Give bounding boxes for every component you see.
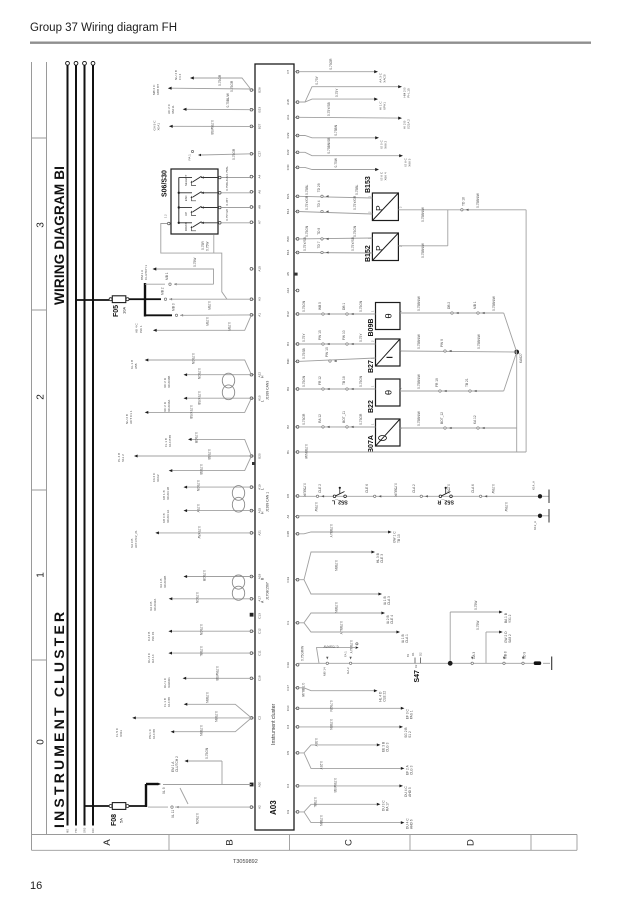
svg-text:B22: B22 — [368, 400, 375, 413]
svg-text:PH_15: PH_15 — [407, 88, 411, 98]
svg-text:2: 2 — [399, 245, 403, 247]
svg-text:XD 9: XD 9 — [523, 652, 527, 659]
svg-text:0.75Y/SB: 0.75Y/SB — [351, 237, 355, 251]
svg-text:MB 2: MB 2 — [161, 287, 165, 295]
svg-text:F4 4: F4 4 — [178, 74, 182, 80]
svg-text:2: 2 — [368, 211, 372, 213]
svg-text:DB 1: DB 1 — [342, 303, 346, 310]
svg-text:0.75BN/W: 0.75BN/W — [476, 192, 480, 208]
svg-text:TB 10: TB 10 — [397, 534, 401, 543]
svg-text:0.75W: 0.75W — [193, 257, 197, 267]
svg-text:S21A 2: S21A 2 — [407, 119, 411, 129]
svg-text:2: 2 — [36, 394, 47, 400]
svg-text:1 2: 1 2 — [164, 214, 168, 218]
svg-text:16: 16 — [30, 880, 42, 892]
svg-text:X311: X311 — [119, 730, 123, 737]
svg-text:0.75GN: 0.75GN — [191, 353, 195, 365]
svg-text:θ: θ — [384, 390, 395, 395]
svg-text:A4: A4 — [258, 174, 262, 178]
svg-text:B4: B4 — [286, 342, 290, 346]
svg-text:F08: F08 — [111, 814, 118, 826]
svg-text:A8: A8 — [258, 205, 262, 209]
svg-text:GA 3: GA 3 — [472, 652, 476, 659]
svg-text:CLE 3: CLE 3 — [380, 554, 384, 563]
svg-text:RA 17: RA 17 — [386, 802, 390, 811]
svg-text:0.75BL/GN: 0.75BL/GN — [225, 176, 229, 191]
svg-text:CLE 2: CLE 2 — [318, 484, 322, 493]
svg-text:XCAN3B: XCAN3B — [167, 376, 171, 388]
svg-text:R10: R10 — [91, 828, 95, 833]
svg-text:ACT C1 1: ACT C1 1 — [129, 410, 133, 424]
svg-text:D1: D1 — [411, 652, 415, 656]
svg-text:0.75R: 0.75R — [227, 322, 231, 331]
svg-text:C3: C3 — [286, 725, 290, 729]
svg-text:5A: 5A — [119, 818, 124, 823]
svg-text:K14 88: K14 88 — [152, 729, 156, 739]
svg-text:S11 2: S11 2 — [121, 454, 125, 462]
svg-text:PW 1: PW 1 — [139, 325, 143, 333]
svg-text:B2: B2 — [286, 425, 290, 429]
svg-text:INSTRUMENT CLUSTER: INSTRUMENT CLUSTER — [51, 609, 67, 828]
svg-text:B9: B9 — [286, 387, 290, 391]
svg-text:C29: C29 — [286, 132, 290, 138]
svg-text:XCAN 1A: XCAN 1A — [166, 509, 170, 523]
svg-text:WB 5: WB 5 — [318, 302, 322, 310]
svg-text:DOWN: DOWN — [184, 222, 188, 231]
svg-text:CLG 3: CLG 3 — [410, 765, 414, 775]
svg-text:S52_L: S52_L — [331, 499, 348, 505]
svg-text:A12: A12 — [286, 287, 290, 293]
svg-text:B23: B23 — [258, 107, 262, 113]
svg-text:PW 15: PW 15 — [318, 330, 322, 340]
svg-text:1: 1 — [368, 237, 372, 239]
svg-text:0.35Y: 0.35Y — [314, 738, 318, 747]
svg-text:A: A — [102, 839, 113, 846]
svg-text:0.75W: 0.75W — [334, 157, 338, 167]
svg-text:0.75BN/W: 0.75BN/W — [421, 242, 425, 258]
svg-text:RA 14: RA 14 — [151, 654, 155, 663]
svg-text:C10: C10 — [286, 705, 290, 711]
svg-text:XM 11: XM 11 — [171, 105, 175, 114]
svg-text:B09B: B09B — [368, 319, 375, 337]
svg-text:C4: C4 — [286, 784, 290, 788]
svg-text:0.75BN/W: 0.75BN/W — [417, 410, 421, 426]
svg-text:TD 4: TD 4 — [317, 200, 321, 207]
svg-text:BOT_12: BOT_12 — [440, 412, 444, 424]
svg-text:F05: F05 — [113, 305, 120, 317]
svg-text:PW 9: PW 9 — [440, 339, 444, 347]
svg-text:0.75Y: 0.75Y — [315, 75, 319, 84]
svg-text:AHD 5: AHD 5 — [408, 787, 412, 797]
svg-text:0.75SB: 0.75SB — [207, 449, 211, 460]
svg-text:XL 11: XL 11 — [171, 810, 175, 818]
svg-text:B90: B90 — [286, 358, 290, 364]
svg-text:0.75Y: 0.75Y — [335, 88, 339, 97]
svg-text:0.75BN/W: 0.75BN/W — [417, 333, 421, 349]
svg-text:A21: A21 — [258, 530, 262, 536]
svg-text:I: I — [386, 356, 395, 358]
svg-text:C17: C17 — [286, 685, 290, 691]
svg-text:0.75GR/W: 0.75GR/W — [301, 645, 305, 661]
svg-text:K14 BT8: K14 BT8 — [168, 435, 172, 447]
svg-text:B07A: B07A — [368, 435, 375, 453]
svg-text:0.75W/SB: 0.75W/SB — [210, 120, 214, 135]
svg-text:C9: C9 — [286, 810, 290, 814]
svg-text:3: 3 — [36, 222, 47, 228]
svg-text:B20: B20 — [286, 236, 290, 242]
svg-text:SA8 2: SA8 2 — [508, 634, 512, 643]
svg-text:0.75Y: 0.75Y — [359, 333, 363, 342]
svg-text:TB 21: TB 21 — [465, 378, 469, 387]
svg-text:XAWD1: XAWD1 — [167, 677, 171, 688]
svg-text:CLA 3: CLA 3 — [387, 596, 391, 605]
svg-text:0.75GN: 0.75GN — [195, 813, 199, 825]
svg-text:B12: B12 — [286, 311, 290, 317]
svg-text:0.75Y/GR: 0.75Y/GR — [305, 195, 309, 210]
svg-text:C18: C18 — [258, 675, 262, 681]
svg-text:0.75BL: 0.75BL — [313, 797, 317, 807]
svg-text:MB 3: MB 3 — [172, 303, 176, 311]
svg-text:0.75GN: 0.75GN — [329, 700, 333, 712]
svg-text:0.75BN/W: 0.75BN/W — [417, 295, 421, 311]
svg-text:FR 19: FR 19 — [435, 378, 439, 387]
svg-text:0.75Y: 0.75Y — [302, 333, 306, 342]
svg-text:A5: A5 — [286, 272, 290, 276]
svg-text:A1: A1 — [258, 313, 262, 317]
svg-text:SELECT: SELECT — [184, 175, 188, 186]
svg-text:X66 2: X66 2 — [384, 140, 388, 148]
svg-text:WIRING DIAGRAM BI: WIRING DIAGRAM BI — [52, 166, 67, 305]
svg-text:C16: C16 — [286, 662, 290, 668]
svg-text:K14_A: K14_A — [532, 481, 536, 490]
svg-text:0.75BL/Y: 0.75BL/Y — [329, 524, 333, 538]
svg-text:C12: C12 — [258, 628, 262, 634]
svg-text:0.75GN: 0.75GN — [196, 480, 200, 492]
svg-text:0.75BN: 0.75BN — [334, 560, 338, 571]
svg-text:0.75BN: 0.75BN — [199, 725, 203, 736]
svg-text:AHD 6: AHD 6 — [410, 819, 414, 829]
svg-text:C1: C1 — [286, 621, 290, 625]
svg-text:0.75W: 0.75W — [314, 502, 318, 512]
svg-text:D: D — [466, 839, 477, 846]
svg-text:B1: B1 — [286, 450, 290, 454]
svg-text:0.25Y: 0.25Y — [319, 761, 323, 770]
svg-text:S06/S30: S06/S30 — [162, 170, 169, 197]
svg-text:2: 2 — [399, 206, 403, 208]
svg-text:J1939 CAN3: J1939 CAN3 — [266, 381, 270, 400]
svg-text:0.75BL: 0.75BL — [305, 185, 309, 195]
svg-text:0.75Y/GR: 0.75Y/GR — [353, 195, 357, 210]
svg-text:0.75BN: 0.75BN — [334, 602, 338, 613]
svg-text:TD 8: TD 8 — [317, 228, 321, 235]
svg-text:0.75GR: 0.75GR — [202, 570, 206, 582]
svg-text:T3059892: T3059892 — [233, 859, 258, 865]
svg-text:X0A2: X0A2 — [156, 474, 160, 482]
svg-text:D2: D2 — [414, 664, 418, 668]
svg-text:S1 2: S1 2 — [408, 731, 412, 738]
svg-text:XCAN3A: XCAN3A — [167, 399, 171, 412]
svg-text:C22: C22 — [286, 149, 290, 155]
svg-text:MO: MO — [66, 829, 70, 833]
svg-text:0.75BL: 0.75BL — [355, 185, 359, 195]
svg-text:P: P — [374, 245, 384, 251]
svg-text:GA 2: GA 2 — [346, 667, 350, 674]
svg-text:0.75BN: 0.75BN — [319, 815, 323, 826]
svg-text:XCAN 1B: XCAN 1B — [166, 487, 170, 500]
svg-text:0.75GN: 0.75GN — [205, 747, 209, 759]
svg-text:MB 1: MB 1 — [473, 301, 477, 309]
svg-text:L: L — [261, 400, 265, 402]
svg-text:B20: B20 — [258, 453, 262, 459]
svg-text:RA 12: RA 12 — [318, 414, 322, 423]
svg-text:1: 1 — [371, 310, 375, 312]
svg-text:A7: A7 — [258, 220, 262, 224]
svg-text:ESC: ESC — [184, 195, 188, 201]
svg-text:TD 29: TD 29 — [317, 183, 321, 192]
svg-text:0.35Y: 0.35Y — [225, 198, 229, 206]
svg-text:KA 12: KA 12 — [473, 415, 477, 424]
svg-text:0.75GN: 0.75GN — [359, 300, 363, 312]
svg-text:B14: B14 — [286, 208, 290, 214]
svg-text:0.75GR: 0.75GR — [194, 432, 198, 444]
svg-text:A03: A03 — [269, 800, 278, 815]
svg-text:A15: A15 — [258, 266, 262, 272]
svg-text:0.75BN: 0.75BN — [214, 711, 218, 722]
svg-text:0.75GN: 0.75GN — [359, 375, 363, 387]
svg-text:L: L — [261, 488, 265, 490]
svg-text:C27: C27 — [258, 151, 262, 157]
svg-text:0.75W: 0.75W — [504, 502, 508, 512]
svg-text:MB 14: MB 14 — [323, 667, 327, 676]
svg-text:0.75GR: 0.75GR — [302, 413, 306, 425]
svg-text:DB 2: DB 2 — [447, 302, 451, 309]
svg-text:D2: D2 — [419, 652, 423, 656]
svg-text:A6: A6 — [258, 190, 262, 194]
svg-text:0.75BL: 0.75BL — [225, 166, 229, 176]
svg-text:0.75BN/W: 0.75BN/W — [477, 333, 481, 349]
svg-text:C2: C2 — [258, 716, 262, 720]
svg-text:X66 4: X66 4 — [384, 172, 388, 180]
svg-text:0.75BN/W: 0.75BN/W — [492, 295, 496, 311]
svg-text:B27: B27 — [258, 123, 262, 129]
svg-text:0.75Y/SB: 0.75Y/SB — [189, 405, 193, 419]
svg-text:0.75GN: 0.75GN — [353, 225, 357, 237]
svg-text:0.75SB: 0.75SB — [302, 348, 306, 359]
svg-text:K13_A: K13_A — [533, 521, 537, 530]
svg-text:MB 1: MB 1 — [165, 272, 169, 280]
svg-text:0.75Y/W: 0.75Y/W — [197, 526, 201, 539]
svg-text:PW 10: PW 10 — [325, 347, 329, 357]
svg-text:CLG 3: CLG 3 — [386, 742, 390, 752]
svg-text:Group 37 Wiring diagram FH: Group 37 Wiring diagram FH — [30, 22, 177, 34]
svg-text:CLE 22: CLE 22 — [383, 691, 387, 702]
svg-text:CLE 6: CLE 6 — [365, 484, 369, 493]
svg-text:0.75GR: 0.75GR — [218, 74, 222, 86]
svg-text:XPH1: XPH1 — [383, 102, 387, 110]
svg-text:B26: B26 — [258, 87, 262, 93]
svg-text:0.75GN: 0.75GN — [305, 225, 309, 237]
svg-text:0.75Y/SB: 0.75Y/SB — [303, 237, 307, 251]
svg-text:MB 8: MB 8 — [504, 651, 508, 659]
svg-text:Instrument cluster: Instrument cluster — [271, 704, 277, 745]
svg-text:UP: UP — [184, 212, 188, 216]
svg-text:B27: B27 — [368, 360, 375, 373]
svg-text:0.75BN/W: 0.75BN/W — [304, 444, 308, 460]
svg-text:1: 1 — [371, 423, 375, 425]
svg-text:Y50: Y50 — [74, 828, 78, 833]
svg-text:CLUTCH 1: CLUTCH 1 — [144, 265, 148, 280]
svg-text:XCAN2B: XCAN2B — [163, 576, 167, 588]
svg-text:XCAN2A: XCAN2A — [153, 598, 157, 611]
svg-text:FA 1: FA 1 — [344, 651, 348, 657]
svg-text:10A: 10A — [122, 307, 127, 314]
svg-text:0.75Y/W: 0.75Y/W — [225, 209, 229, 221]
svg-text:CLA 1: CLA 1 — [405, 634, 409, 643]
svg-text:X66 3: X66 3 — [408, 158, 412, 166]
svg-text:0.75SB: 0.75SB — [199, 464, 203, 475]
svg-text:CLA 6: CLA 6 — [471, 484, 475, 493]
svg-text:0.75Y/SB: 0.75Y/SB — [197, 391, 201, 405]
svg-text:0.75GR: 0.75GR — [329, 58, 333, 70]
svg-text:2: 2 — [371, 340, 375, 342]
svg-text:TD 7: TD 7 — [317, 241, 321, 248]
svg-text:0.75BL/Y: 0.75BL/Y — [339, 621, 343, 635]
svg-text:1: 1 — [36, 572, 47, 578]
svg-text:0.75Y/SB: 0.75Y/SB — [327, 102, 331, 116]
svg-text:0.75BL/R: 0.75BL/R — [394, 483, 398, 497]
svg-text:0.75BL/Y: 0.75BL/Y — [349, 640, 353, 654]
svg-text:0.75W: 0.75W — [491, 484, 495, 494]
svg-text:0.75GN: 0.75GN — [195, 592, 199, 604]
svg-text:A17: A17 — [258, 596, 262, 602]
svg-text:0.75BN: 0.75BN — [334, 124, 338, 135]
svg-text:CLUTCH 2: CLUTCH 2 — [175, 756, 179, 772]
svg-text:0.75W: 0.75W — [206, 241, 210, 251]
svg-text:0.75BN: 0.75BN — [205, 692, 209, 703]
svg-text:TB 18: TB 18 — [342, 376, 346, 385]
svg-text:0.75R: 0.75R — [201, 241, 205, 250]
svg-text:C5: C5 — [286, 751, 290, 755]
svg-text:C13: C13 — [258, 613, 262, 619]
svg-text:B: B — [225, 839, 236, 845]
svg-text:A11: A11 — [286, 114, 290, 120]
svg-text:0.75GN: 0.75GN — [199, 624, 203, 636]
svg-text:0.75GN: 0.75GN — [302, 375, 306, 387]
svg-text:0.75GR: 0.75GR — [359, 413, 363, 425]
svg-text:PA 1: PA 1 — [188, 154, 192, 161]
svg-text:0.75GR: 0.75GR — [230, 80, 234, 92]
svg-text:C: C — [344, 839, 355, 846]
svg-text:Y31 2: Y31 2 — [508, 614, 512, 623]
svg-text:0.75W: 0.75W — [476, 620, 480, 630]
svg-text:C30: C30 — [286, 164, 290, 170]
svg-text:1: 1 — [368, 196, 372, 198]
svg-text:J1939 CAN 1: J1939 CAN 1 — [266, 492, 270, 512]
svg-text:CLE 4: CLE 4 — [390, 615, 394, 624]
svg-text:0.75R: 0.75R — [205, 317, 209, 326]
svg-text:C11: C11 — [258, 650, 262, 656]
svg-text:FR 12: FR 12 — [318, 376, 322, 385]
svg-text:0.75W/SB: 0.75W/SB — [333, 778, 337, 793]
svg-text:0.75BL/W: 0.75BL/W — [301, 683, 305, 698]
svg-text:B153: B153 — [365, 176, 372, 193]
svg-text:B13: B13 — [286, 249, 290, 255]
svg-text:S47: S47 — [414, 670, 421, 683]
svg-text:0.75BN/W: 0.75BN/W — [421, 206, 425, 222]
svg-text:K14 88: K14 88 — [167, 697, 171, 707]
svg-text:0.75Y: 0.75Y — [196, 504, 200, 513]
svg-text:0.75GN: 0.75GN — [197, 368, 201, 380]
svg-text:XACB: XACB — [383, 74, 387, 82]
svg-text:0.75GR/W: 0.75GR/W — [324, 645, 339, 649]
svg-text:0.75GN: 0.75GN — [302, 300, 306, 312]
svg-text:BOT_11: BOT_11 — [342, 411, 346, 423]
svg-text:KA627: KA627 — [519, 353, 523, 363]
svg-text:0.75GR: 0.75GR — [232, 148, 236, 160]
svg-text:A2: A2 — [286, 514, 290, 518]
svg-text:1: 1 — [371, 357, 375, 359]
svg-text:0.75BL: 0.75BL — [199, 646, 203, 656]
svg-text:TD 18: TD 18 — [462, 197, 466, 206]
svg-text:CLA 2: CLA 2 — [412, 484, 416, 493]
svg-text:A2: A2 — [258, 805, 262, 809]
svg-text:J1708/1567: J1708/1567 — [266, 582, 270, 600]
svg-text:B21: B21 — [286, 193, 290, 199]
svg-text:C28: C28 — [286, 531, 290, 537]
svg-text:A07-PC2_21: A07-PC2_21 — [134, 530, 138, 548]
svg-text:A3: A3 — [258, 297, 262, 301]
svg-text:PW 15: PW 15 — [151, 631, 155, 641]
svg-text:0.75W/SB: 0.75W/SB — [215, 666, 219, 681]
svg-text:XL 9: XL 9 — [162, 787, 166, 794]
svg-text:0.75BL/R: 0.75BL/R — [303, 483, 307, 497]
svg-text:0.75BL/W: 0.75BL/W — [226, 92, 230, 107]
svg-text:B1: B1 — [406, 653, 410, 657]
svg-text:θ: θ — [384, 313, 395, 318]
svg-text:C8: C8 — [286, 494, 290, 498]
svg-text:A10: A10 — [258, 395, 262, 401]
svg-text:FW 10: FW 10 — [342, 330, 346, 340]
svg-text:0.75BN/SB: 0.75BN/SB — [327, 138, 331, 154]
svg-text:S52_R: S52_R — [437, 499, 454, 505]
svg-text:P: P — [374, 205, 384, 211]
svg-text:0.75R: 0.75R — [207, 301, 211, 310]
svg-text:0: 0 — [36, 739, 47, 745]
svg-text:KBB BT: KBB BT — [156, 84, 160, 95]
svg-text:0.75W: 0.75W — [474, 600, 478, 610]
svg-text:A20: A20 — [258, 781, 262, 787]
svg-text:OR5: OR5 — [83, 827, 87, 833]
svg-text:A55: A55 — [134, 363, 138, 369]
svg-text:0.75BN/W: 0.75BN/W — [417, 373, 421, 389]
svg-text:PAS 1: PAS 1 — [410, 710, 414, 719]
svg-text:A18: A18 — [286, 99, 290, 105]
svg-text:X0A1: X0A1 — [157, 123, 161, 131]
svg-text:C19: C19 — [286, 577, 290, 583]
svg-text:1: 1 — [371, 385, 375, 387]
svg-text:C7: C7 — [286, 69, 290, 73]
svg-text:0.75BN: 0.75BN — [329, 719, 333, 730]
